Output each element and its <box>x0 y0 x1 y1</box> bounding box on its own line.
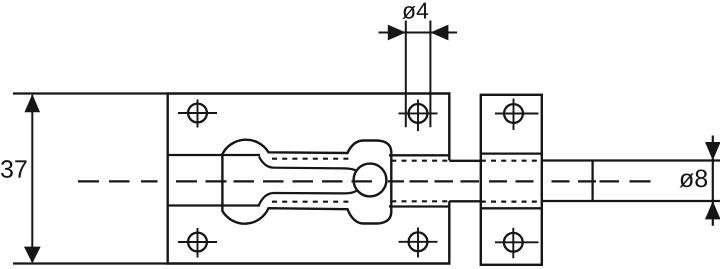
keeper screw hole top crosshair <box>495 99 539 131</box>
guide rail bottom left segment <box>168 204 260 206</box>
dimension o4 extension line left <box>405 21 407 128</box>
dimension o4 arrow left-pointing <box>430 25 448 41</box>
dimension o4 arrow right-pointing <box>388 25 406 41</box>
rod between plates top <box>449 160 481 162</box>
slider inner fold line top <box>259 157 357 171</box>
rod right of keeper top edge <box>542 159 720 161</box>
dimension 37 extension line bottom <box>13 262 168 264</box>
keeper plate <box>481 95 542 265</box>
screw hole top-left crosshair <box>178 99 217 127</box>
screw hole bottom-left circle <box>188 233 207 252</box>
screw hole bottom-right circle <box>409 232 428 251</box>
rod right of keeper bottom edge <box>542 200 720 202</box>
knob circle <box>354 164 387 197</box>
centerline horizontal axis <box>78 180 651 182</box>
dimension o4 label <box>402 3 428 19</box>
hidden rod in keeper top (dashed) <box>481 160 542 162</box>
dimension 37 label <box>1 160 27 178</box>
keeper screw hole bottom circle <box>504 233 523 252</box>
rod joint line <box>591 161 593 202</box>
main plate <box>168 94 450 264</box>
hidden rod under neck bottom (dashed) <box>272 201 350 203</box>
screw hole top-right circle <box>409 104 428 123</box>
rod between plates bottom <box>449 200 481 202</box>
dimension o8 line and rod end cap <box>712 136 714 226</box>
hidden rod in keeper bottom (dashed) <box>481 201 542 203</box>
slider bolt cover outline <box>222 140 391 224</box>
dimension 37 arrow down <box>24 247 41 264</box>
guide rail top left segment <box>168 154 260 156</box>
hidden rod right of bulb top (dashed) <box>391 160 449 162</box>
screw hole bottom-right crosshair <box>399 228 438 258</box>
dimension o8 arrow up <box>705 201 720 219</box>
screw hole bottom-left crosshair <box>178 228 217 258</box>
keeper screw hole bottom crosshair <box>495 228 539 258</box>
screw hole top-left circle <box>188 104 207 123</box>
dimension o4 line <box>379 32 458 34</box>
dimension 37 extension line top <box>13 92 168 94</box>
dimension 37 line <box>31 95 33 262</box>
guide rail bottom right segment <box>389 205 449 207</box>
slider inner fold line bottom <box>259 191 357 205</box>
screw hole top-right crosshair <box>399 100 438 132</box>
keeper sleeve bottom line <box>481 207 542 209</box>
hidden rod right of bulb bottom (dashed) <box>391 200 449 202</box>
dimension o8 arrow down <box>705 142 720 160</box>
guide rail top right segment <box>389 154 449 156</box>
keeper screw hole top circle <box>504 104 523 123</box>
dimension o8 label <box>680 170 708 188</box>
keeper sleeve top line <box>481 152 542 154</box>
dimension o4 extension line right <box>429 21 431 128</box>
hidden rod under neck top (dashed) <box>272 158 350 160</box>
dimension 37 arrow up <box>25 94 41 112</box>
